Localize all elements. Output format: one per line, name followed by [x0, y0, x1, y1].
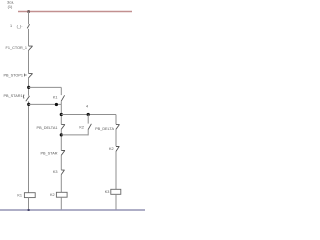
wire segment [28, 29, 30, 46]
svg-text:PB_DELTA: PB_DELTA [95, 127, 114, 131]
contact K1 seal-in stub [60, 87, 62, 95]
wire K3 coil to rail [115, 194, 117, 210]
svg-text:K1: K1 [17, 193, 22, 197]
junction tick on bottom rail [28, 209, 30, 211]
breaker Q1 contact [27, 24, 29, 28]
svg-text:1: 1 [10, 24, 12, 28]
wire segment [28, 51, 30, 74]
svg-text:4: 4 [86, 104, 88, 108]
wire node 4 horizontal [61, 114, 116, 116]
wire segment [60, 175, 62, 193]
pushbutton PB_DELTA contact [116, 125, 119, 130]
coil K2 [56, 192, 67, 197]
wire segment [60, 155, 62, 170]
svg-text:K2: K2 [50, 193, 55, 197]
contact K2 branch stub [87, 115, 89, 124]
wire branch vertical to node 4 [60, 104, 62, 124]
wire K1 coil to rail [28, 198, 30, 210]
power rail L1 (red) [18, 11, 132, 13]
wire segment [115, 152, 117, 190]
wire K2 coil to rail [60, 197, 62, 210]
junction node dot rejoin [27, 103, 30, 106]
coil K1 [24, 193, 35, 198]
junction dot on rejoin [55, 103, 58, 106]
wire seal-in bottom stub [60, 101, 62, 104]
contact K2 interlock [116, 147, 119, 152]
wire segment [60, 129, 62, 150]
svg-text:PB_DELTA1: PB_DELTA1 [37, 126, 58, 130]
svg-text:K3: K3 [53, 170, 58, 174]
junction dot rejoin K2 branch [60, 133, 63, 136]
contact K2 [88, 124, 91, 130]
svg-text:PB_STAR: PB_STAR [40, 152, 57, 156]
wire segment [115, 129, 117, 146]
svg-text:K3: K3 [105, 190, 110, 194]
svg-text:PB_STAR1: PB_STAR1 [3, 94, 22, 98]
pushbutton PB_STAR contact [61, 151, 64, 156]
pushbutton PB_DELTA1 contact [61, 125, 64, 130]
pushbutton PB_STOP1 contact [28, 74, 32, 78]
contact F1_CTOR_1 [28, 46, 32, 50]
node junction on rail [28, 10, 30, 13]
svg-text:(1): (1) [8, 4, 13, 9]
svg-text:K1: K1 [53, 95, 58, 99]
svg-text:F1_CTOR_1: F1_CTOR_1 [6, 46, 27, 50]
coil K3 [111, 189, 121, 194]
svg-text:PB_STOP1: PB_STOP1 [3, 73, 23, 77]
svg-text:(_)-: (_)- [17, 24, 24, 28]
junction node 3 dot [27, 86, 30, 89]
pushbutton PB_STOP1 actuator [25, 74, 27, 77]
wire main vertical top segment [28, 12, 30, 25]
pushbutton PB_STAR1 contact [26, 96, 30, 101]
pushbutton PB_STAR1 actuator [23, 95, 26, 99]
wire delta branch stub [115, 115, 117, 125]
junction node 4 dot middle [87, 113, 90, 116]
power rail N (blue-gray bottom) [0, 209, 145, 211]
wire seal-in rejoin horizontal [29, 103, 62, 105]
wire segment [28, 78, 30, 96]
contact K1 [61, 95, 64, 101]
svg-text:K2: K2 [109, 147, 114, 151]
wire K2 branch bottom stub [87, 130, 89, 136]
contact K3 interlock [61, 170, 64, 175]
wire branch to seal-in [29, 86, 62, 88]
svg-text:K2: K2 [79, 125, 84, 129]
wire rejoin horizontal y135 [61, 134, 88, 136]
junction node 4 dot left [60, 113, 63, 116]
wire segment [28, 101, 30, 192]
